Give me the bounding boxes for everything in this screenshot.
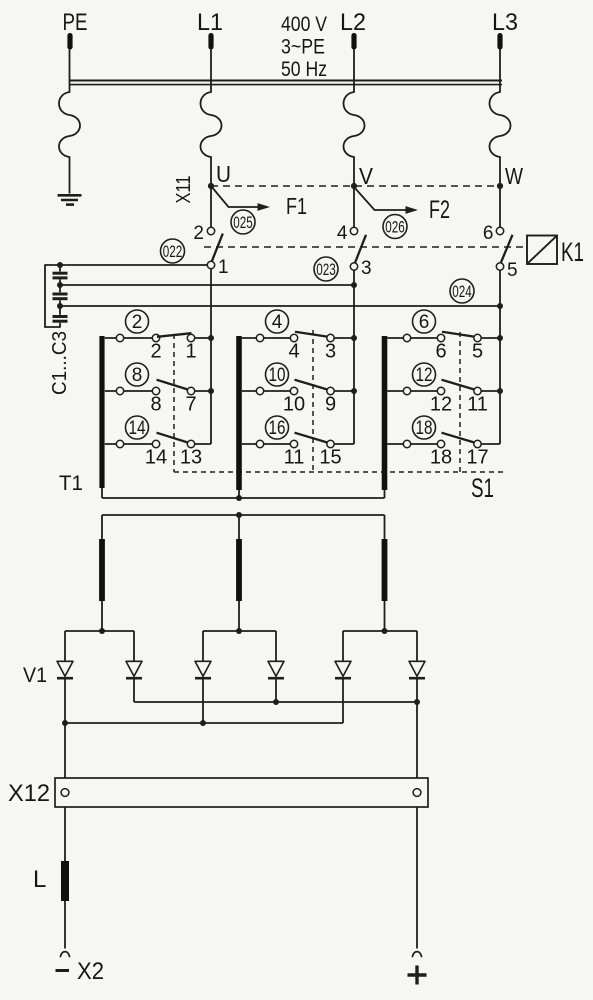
switch S1 contact 17 — [466, 440, 500, 468]
junction primary star — [236, 495, 242, 501]
wire X12 to plus — [416, 807, 418, 949]
svg-text:C1...C3: C1...C3 — [49, 331, 71, 395]
wire L2 to node V — [353, 157, 355, 186]
svg-text:V1: V1 — [23, 664, 47, 687]
svg-text:U: U — [216, 161, 231, 187]
svg-text:L: L — [33, 866, 46, 893]
junction secondary common — [236, 512, 242, 518]
wire cap line 3 — [57, 303, 499, 309]
inductor L2 coil — [344, 92, 365, 157]
junction 024 bus cap3 — [497, 303, 503, 309]
wire L2 drop — [353, 49, 355, 92]
position ref (12) — [413, 363, 436, 386]
terminal PE — [63, 9, 88, 50]
diode V1-2 — [126, 631, 142, 702]
junction rect ac c — [382, 628, 388, 634]
svg-text:10: 10 — [269, 365, 286, 386]
wire rect ac a — [65, 630, 134, 632]
svg-text:F2: F2 — [429, 196, 450, 224]
switch contact 023 pin 4 — [337, 189, 358, 244]
svg-text:7: 7 — [185, 394, 196, 416]
switch S1 contact 11 — [467, 387, 500, 415]
label minus X2 — [56, 958, 105, 985]
switch S1 contact 8 — [116, 387, 161, 415]
svg-text:V: V — [359, 163, 374, 189]
transformer T1 secondary winding c — [382, 515, 388, 631]
svg-text:X11: X11 — [173, 176, 195, 204]
svg-text:4: 4 — [272, 312, 283, 333]
svg-text:14: 14 — [145, 447, 167, 469]
switch contact 022 pin 1 — [207, 257, 228, 278]
dashed S1 coupling mid — [312, 330, 314, 472]
ref 023 — [314, 257, 338, 281]
svg-text:025: 025 — [233, 214, 253, 232]
switch contact 022 pin 2 — [193, 189, 214, 244]
svg-text:2: 2 — [132, 312, 143, 333]
svg-text:9: 9 — [325, 394, 336, 416]
svg-text:X2: X2 — [77, 958, 104, 985]
switch S1 blade 2-1 — [157, 333, 192, 337]
position ref (8) — [126, 363, 149, 386]
switch S1 blade 10-9 — [295, 380, 328, 390]
svg-text:6: 6 — [483, 223, 494, 244]
switch S1 contact 2 — [116, 334, 161, 362]
transformer T1 secondary winding b — [236, 515, 242, 631]
svg-text:5: 5 — [507, 260, 518, 281]
svg-text:F1: F1 — [286, 193, 307, 219]
wire PE to ground — [69, 157, 71, 194]
switch S1 contact 1 — [185, 334, 211, 362]
switch S1 blade 12-11 — [442, 380, 475, 390]
position ref (10) — [266, 363, 289, 386]
position ref (16) — [266, 416, 289, 439]
switch blade 022 — [212, 234, 223, 262]
svg-text:6: 6 — [435, 341, 446, 363]
svg-text:K1: K1 — [561, 237, 584, 267]
wire dc rail plus — [134, 701, 417, 703]
svg-text:L3: L3 — [492, 9, 518, 36]
junction rect ac b — [236, 628, 242, 634]
position ref (6) — [413, 310, 436, 333]
wire dc rail minus — [65, 722, 343, 724]
switch S1 contact 18 — [403, 440, 452, 468]
wire S1 mid row1 stub — [242, 337, 290, 339]
switch S1 blade 18-17 — [442, 433, 475, 443]
wire S1 left row2 stub — [105, 390, 153, 392]
node U — [208, 161, 231, 189]
switch S1 contact 11 — [256, 440, 304, 468]
label plus — [408, 966, 427, 985]
dashed S1 coupling right — [459, 332, 461, 472]
supply bus double line — [70, 81, 503, 85]
wire S1 mid row3 stub — [242, 443, 290, 445]
switch S1 contact 3 — [325, 334, 354, 362]
svg-text:024: 024 — [452, 283, 472, 301]
capacitor C3 — [53, 306, 68, 327]
position ref (14) — [126, 416, 149, 439]
terminal L2 — [340, 9, 366, 50]
ref 022 — [161, 239, 185, 263]
junction dc minus d1 — [62, 720, 68, 726]
switch S1 contact 13 — [180, 440, 211, 468]
switch blade 023 — [355, 235, 366, 263]
wire S1 right row1 stub — [387, 337, 437, 339]
wire L1 to node U — [210, 157, 212, 186]
wire bus from 022-1 — [210, 269, 212, 444]
fuse arrow F1 — [211, 186, 307, 219]
socket minus — [61, 952, 70, 957]
svg-text:022: 022 — [163, 243, 183, 261]
svg-text:3: 3 — [361, 258, 372, 279]
wire S1 left row3 stub — [105, 443, 153, 445]
wire cap line 2 — [57, 282, 353, 288]
switch contact 024 pin 5 — [496, 260, 517, 281]
svg-text:10: 10 — [283, 394, 305, 416]
terminal strip X12 — [8, 778, 428, 807]
ref 026 — [383, 215, 407, 239]
wire cap return — [45, 265, 60, 327]
wire primary star — [102, 488, 385, 498]
diode V1-1 — [57, 631, 73, 723]
transformer T1 primary winding b — [236, 336, 242, 490]
junction dc plus d6 — [414, 699, 420, 705]
diode V1-3 — [195, 631, 211, 723]
junction 024 bus row2 — [497, 388, 503, 394]
svg-text:4: 4 — [288, 341, 299, 363]
label 400V 3~PE 50Hz — [281, 13, 327, 81]
switch blade 024 — [501, 235, 513, 262]
svg-text:400 V: 400 V — [281, 13, 327, 36]
wire PE drop — [69, 49, 71, 92]
wire S1 left row1 stub — [105, 337, 153, 339]
diode V1-5 — [335, 631, 351, 723]
junction 023 bus row1 — [351, 335, 357, 341]
terminal L3 — [492, 9, 518, 50]
X12 terminal minus — [61, 789, 69, 797]
svg-text:5: 5 — [472, 341, 483, 363]
svg-text:16: 16 — [269, 418, 286, 439]
wire L1 drop — [210, 49, 212, 92]
svg-text:S1: S1 — [471, 473, 494, 503]
wire L3 to node W — [499, 157, 501, 186]
svg-text:11: 11 — [284, 447, 305, 469]
svg-text:2: 2 — [193, 223, 204, 244]
wire minus to X12 — [64, 723, 66, 778]
svg-text:12: 12 — [416, 365, 433, 386]
inductor PE coil — [59, 92, 80, 157]
svg-text:18: 18 — [416, 418, 433, 439]
svg-text:14: 14 — [129, 418, 146, 439]
switch S1 contact 5 — [472, 334, 500, 362]
junction dc minus d3 — [200, 720, 206, 726]
junction 022 bus row1 — [208, 335, 214, 341]
svg-text:L2: L2 — [340, 9, 366, 36]
switch S1 blade 6-5 — [442, 332, 475, 337]
X12 terminal plus — [413, 789, 421, 797]
switch S1 contact 4 — [256, 334, 299, 362]
svg-text:8: 8 — [150, 394, 161, 416]
svg-text:4: 4 — [337, 223, 348, 244]
svg-text:2: 2 — [150, 341, 161, 363]
wire plus to X12 — [416, 702, 418, 778]
svg-text:X12: X12 — [8, 780, 50, 807]
capacitor C2 — [53, 285, 68, 306]
junction 024 bus row1 — [497, 335, 503, 341]
svg-text:11: 11 — [467, 394, 488, 416]
svg-text:13: 13 — [180, 447, 202, 469]
svg-text:T1: T1 — [59, 472, 83, 495]
svg-text:15: 15 — [319, 447, 341, 469]
ref 024 — [450, 279, 474, 303]
svg-text:026: 026 — [385, 218, 405, 236]
switch S1 contact 6 — [403, 334, 446, 362]
transformer T1 primary winding c — [382, 336, 388, 490]
wire rect ac c — [343, 630, 417, 632]
junction 023 bus row2 — [351, 388, 357, 394]
ground — [58, 195, 82, 204]
wire S1 right row3 stub — [387, 443, 437, 445]
wire choke to X2 — [64, 901, 66, 949]
wire bus from 024-5 — [499, 270, 501, 444]
wire S1 right row2 stub — [387, 390, 437, 392]
svg-text:50 Hz: 50 Hz — [281, 58, 327, 81]
svg-text:023: 023 — [316, 261, 336, 279]
diode V1-6 — [409, 631, 425, 702]
switch S1 contact 9 — [325, 387, 354, 415]
wire cap line 1 — [45, 262, 207, 268]
switch S1 blade 4-3 — [295, 332, 328, 337]
svg-text:6: 6 — [419, 312, 430, 333]
svg-text:3: 3 — [325, 341, 336, 363]
dashed S1 coupling left — [173, 334, 175, 472]
svg-text:18: 18 — [430, 447, 452, 469]
wire rect ac b — [203, 630, 276, 632]
svg-text:L1: L1 — [197, 9, 223, 36]
switch S1 contact 7 — [185, 387, 211, 415]
svg-text:W: W — [505, 163, 523, 189]
junction 022 bus row2 — [208, 388, 214, 394]
svg-text:1: 1 — [218, 257, 229, 278]
switch S1 blade 14-13 — [157, 433, 189, 443]
wire S1 mid row2 stub — [242, 390, 290, 392]
fuse arrow F2 — [354, 187, 450, 224]
wire X12 to choke — [64, 807, 66, 861]
inductor L choke — [33, 861, 69, 901]
switch S1 contact 14 — [116, 440, 167, 468]
dashed interlock line to K1 — [204, 246, 526, 248]
junction dc plus d4 — [273, 699, 279, 705]
svg-text:17: 17 — [466, 447, 488, 469]
svg-text:12: 12 — [430, 394, 452, 416]
node W — [497, 163, 523, 189]
switch S1 blade 11-15 — [295, 433, 328, 443]
junction rect ac a — [99, 628, 105, 634]
svg-text:8: 8 — [132, 365, 143, 386]
svg-text:PE: PE — [63, 9, 88, 36]
switch contact 023 pin 3 — [350, 258, 371, 279]
wire secondary common — [102, 514, 385, 516]
transformer T1 secondary winding a — [99, 515, 105, 631]
capacitor C1 — [53, 265, 68, 285]
inductor L3 coil — [490, 92, 511, 157]
terminal L1 — [197, 9, 223, 50]
position ref (2) — [126, 310, 149, 333]
node V — [351, 163, 374, 189]
dashed mech link U-V-W — [211, 185, 500, 187]
diode V1-4 — [268, 631, 284, 702]
switch S1 contact 12 — [403, 387, 452, 415]
svg-text:3~PE: 3~PE — [281, 36, 325, 59]
socket plus — [413, 952, 422, 957]
ref 025 — [231, 210, 255, 234]
position ref (18) — [413, 416, 436, 439]
switch S1 blade 8-7 — [157, 380, 189, 390]
wire bus from 023-3 — [353, 270, 355, 444]
junction 023 bus cap2 — [351, 282, 357, 288]
svg-text:1: 1 — [185, 341, 196, 363]
wire L3 drop — [499, 49, 501, 92]
switch S1 contact 15 — [319, 440, 354, 468]
inductor L1 coil — [201, 92, 222, 157]
contactor coil K1 — [527, 236, 584, 268]
position ref (4) — [266, 310, 289, 333]
switch S1 contact 10 — [256, 387, 305, 415]
switch contact 024 pin 6 — [483, 189, 504, 244]
transformer T1 primary winding a — [99, 336, 104, 488]
dashed S1 coupling bottom — [174, 471, 506, 473]
